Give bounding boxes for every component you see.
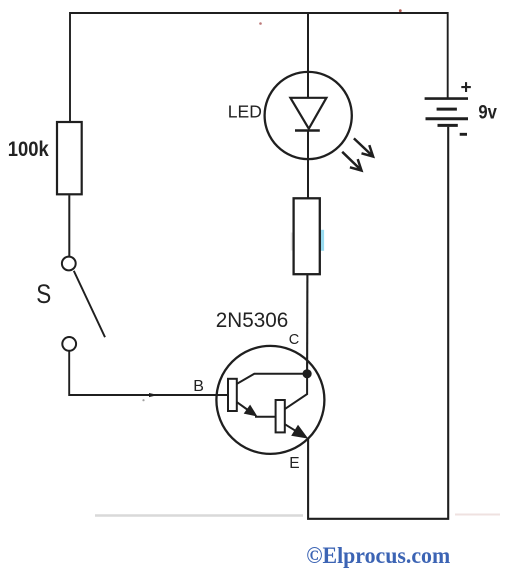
svg-text:B: B: [193, 378, 204, 395]
transistor Q1 2N5306 (darlington pair in circle): [216, 346, 324, 454]
wire collector feed: resistor R2 bottom down to junction dot: [306, 274, 308, 374]
svg-text:2N5306: 2N5306: [216, 309, 288, 332]
wire middle drop from top rail to LED: [307, 13, 309, 74]
battery BT1 9v: [425, 99, 468, 126]
LED D1: [265, 72, 374, 198]
svg-text:100k: 100k: [8, 137, 49, 161]
svg-text:C: C: [289, 332, 299, 348]
wire battery negative down to bottom rail and emitter wire: [308, 127, 448, 519]
resistor R2: [294, 198, 320, 274]
wire switch to base (down then right), with small direction mark: [69, 351, 228, 397]
decorative scan artifacts (unlabelled): [95, 9, 500, 515]
label - (battery negative): [460, 133, 467, 136]
svg-text:S: S: [36, 279, 51, 309]
wire resistor R1 to switch: [68, 195, 70, 256]
svg-text:E: E: [289, 455, 299, 472]
svg-text:9v: 9v: [478, 101, 497, 123]
wire top rail from resistor top up, across, down to battery +: [70, 13, 448, 121]
svg-text:©Elprocus.com: ©Elprocus.com: [306, 543, 450, 568]
svg-text:LED: LED: [228, 102, 262, 122]
resistor R1 100k: [57, 122, 82, 194]
svg-text:+: +: [461, 78, 472, 99]
switch S: [62, 257, 105, 351]
